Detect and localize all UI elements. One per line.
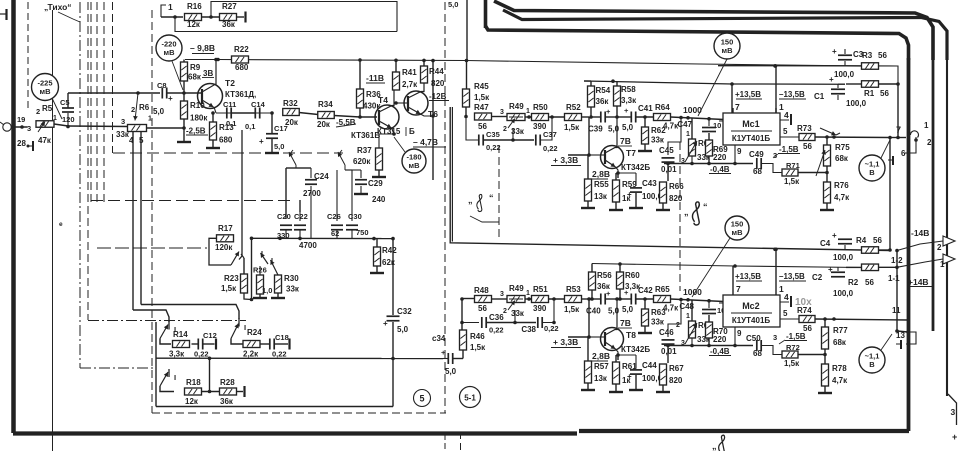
ground under R59 [609,202,623,210]
note mark quote 9 [468,193,499,222]
wire R64 to node [671,116,725,121]
wire R47 to R49 [492,109,508,117]
wire C42 to R65 [636,298,654,300]
wire R46 bottom [462,350,464,359]
resistor R54 [588,86,611,107]
dash-dot screen bottom y368 [80,367,156,369]
ground under C43 [629,193,643,208]
svg-text:R78: R78 [832,364,847,373]
svg-text:+ 3,3В: + 3,3В [553,155,578,165]
wire R45 top [465,0,469,89]
svg-text:С36: С36 [489,313,504,322]
resistor R4 [856,236,882,253]
capacitor C45 [659,118,681,175]
resistor R77 [822,326,849,349]
label -11V [366,73,385,83]
potentiometer R5 [36,115,57,145]
resistor R23 [221,274,248,293]
svg-text:+13,5В: +13,5В [735,90,761,99]
dashed screen x91 [90,2,92,205]
capacitor C39 [588,107,620,134]
svg-text:–13,5В: –13,5В [779,272,805,281]
svg-text:820: 820 [669,376,683,385]
wire box left x156 [155,322,157,407]
svg-text:3: 3 [500,291,504,298]
dashed screen x104 [103,2,105,205]
svg-text:С32: С32 [397,307,412,316]
pin 7 top b [733,284,741,295]
pin 5 out b [780,309,799,319]
svg-text:0,1: 0,1 [226,119,236,128]
svg-text:R28: R28 [220,378,235,387]
svg-text:33к: 33к [286,285,300,294]
end bar after R27 [244,12,246,23]
svg-text:КТ361Д,: КТ361Д, [225,90,256,99]
svg-text:1: 1 [924,121,929,130]
svg-text:+: + [832,231,837,240]
switch S3 [160,369,176,392]
resistor R72 [782,343,800,368]
resistor R57 [585,361,610,383]
supply drop pin7 Mc1 [732,84,762,113]
capacitor C18 [270,333,289,359]
wire rail y81 [584,79,838,85]
pin 4 bar b [780,292,791,307]
wire R32-R34 [299,113,318,115]
svg-text:R66: R66 [669,182,684,191]
wire to C37 [513,139,534,141]
supply drop pin1 Mc1 [774,64,806,113]
svg-text:56: 56 [880,89,889,98]
svg-text:100,0: 100,0 [833,289,854,298]
svg-text:КТ315: КТ315 [377,127,401,136]
svg-text:с34: с34 [432,334,446,343]
wire R59 top [615,173,617,180]
resistor R9 [181,62,215,82]
resistor R18 [185,378,202,406]
resistor R73 [797,124,815,151]
svg-text:С26: С26 [327,212,341,221]
wire R70 top [708,315,710,322]
svg-text:680: 680 [219,136,233,145]
wire R16-R27 [202,15,220,19]
resistor R16 [185,2,203,29]
svg-text:33к: 33к [651,136,665,145]
wire C36 to wiper2 [486,310,517,324]
svg-text:Мс1: Мс1 [742,119,759,129]
svg-text:С2: С2 [812,273,823,282]
svg-text:5,0: 5,0 [397,325,409,334]
dashed screen x499 [498,145,500,238]
capacitor C4 electrolytic [820,231,854,262]
wire R57 top [587,337,589,361]
svg-text:С20: С20 [277,212,291,221]
svg-text:33к: 33к [511,309,525,318]
dashed screen x460 [460,432,462,450]
label 7V b [618,318,632,328]
wire R34 to T4 base [334,115,377,119]
wire R45 bottom [464,107,468,118]
svg-text:-14В: -14В [911,228,929,238]
capacitor C47 [677,119,716,132]
capacitor C24 [303,168,329,238]
ground under R37 [372,170,386,177]
resistor R66 [660,182,685,203]
svg-text:5,0: 5,0 [622,123,634,132]
svg-text:0,22: 0,22 [543,144,558,153]
wire R4 right [879,248,899,252]
wire R6 pin4 down [132,132,134,311]
svg-text:+: + [627,190,632,199]
svg-text:2: 2 [937,243,942,252]
wire C20 branch [286,168,296,219]
wire R48 to R49b [492,291,508,299]
circled 5 [414,390,431,407]
transistor T8 [589,299,624,355]
svg-text:820: 820 [669,194,683,203]
svg-text:20к: 20к [285,118,299,127]
svg-text:R54: R54 [596,86,611,95]
wire R1 leads [846,82,900,86]
svg-text:1-2: 1-2 [891,256,903,265]
wire input to R5 [11,125,28,129]
svg-text:2: 2 [927,138,932,147]
svg-text:5: 5 [419,394,424,404]
wire R63 top [643,297,647,309]
svg-text:750: 750 [356,228,369,237]
svg-text:56: 56 [865,278,874,287]
svg-text:1,5к: 1,5к [474,93,490,102]
svg-text:5,0: 5,0 [622,305,634,314]
svg-text:2700: 2700 [303,189,321,198]
svg-text:2,2к: 2,2к [243,350,259,359]
svg-text:– 9,8В: – 9,8В [190,43,215,53]
resistor R48 [474,286,492,313]
capacitor C26 [327,170,343,239]
svg-text:е: е [59,221,63,228]
svg-text:R56: R56 [597,271,612,280]
svg-text:С45: С45 [659,146,674,155]
wire R65 to node [671,298,725,303]
wire C41 to R64 [636,116,654,118]
screen line x52 [52,10,54,449]
svg-text:4700: 4700 [299,241,317,250]
svg-text:1: 1 [686,313,690,320]
svg-text:С1: С1 [814,92,825,101]
mark e [59,221,63,228]
wire R61 top [615,355,617,362]
resistor R27 [220,2,238,29]
measure circle 150mV bottom [725,216,749,240]
wire row C3 [718,64,845,68]
label 11 [892,306,901,315]
svg-text:+: + [606,107,611,116]
resistor R17 [215,224,234,252]
svg-text:+: + [828,265,833,274]
svg-text:68к: 68к [188,73,202,82]
label 2.8V b [590,351,610,361]
wire base left [568,154,589,156]
wire x890 vertical [889,138,891,251]
switch contact c [260,251,268,275]
ground under R62 [638,144,652,151]
svg-text:3: 3 [500,109,504,116]
svg-text:С29: С29 [368,179,383,188]
svg-text:+: + [624,288,629,297]
svg-text:19: 19 [17,115,25,124]
wire R71 to R75 [798,171,829,175]
svg-text:7: 7 [735,102,740,112]
wire C11-C14 [232,112,256,114]
svg-text:5: 5 [783,309,788,318]
wire R9 top to rail [183,60,185,63]
svg-text:С39: С39 [588,125,603,134]
capacitor C44 electrolytic [627,355,663,383]
svg-text:2,8В: 2,8В [592,169,610,179]
svg-text:1: 1 [686,131,690,138]
resistor R28 [220,378,237,406]
svg-text:68: 68 [753,167,762,176]
svg-text:-1,5В: -1,5В [779,145,799,154]
ground under R55 [581,201,595,208]
svg-text:R37: R37 [357,146,372,155]
wire R69 top [708,133,710,140]
thick frame C vertical right [907,58,911,431]
svg-text:R34: R34 [318,100,333,109]
svg-text:1,5к: 1,5к [784,359,800,368]
svg-text:5: 5 [783,127,788,136]
pin 9 b [735,327,742,346]
wire R54 rail stub [584,80,591,82]
svg-text:R46: R46 [470,332,485,341]
frame B vertical right [946,58,948,396]
svg-text:7В: 7В [620,318,631,328]
svg-text:R58: R58 [621,85,636,94]
resistor R69 [706,140,729,162]
svg-text:2,8В: 2,8В [592,351,610,361]
svg-text:Б: Б [409,127,415,136]
wire row1 [161,15,183,19]
ground under R30 [271,293,285,298]
svg-text:2: 2 [503,126,507,133]
svg-text:56: 56 [803,324,812,333]
svg-text:С22: С22 [294,212,308,221]
dash-dot screen y320 [88,320,246,322]
svg-text:2: 2 [131,105,135,114]
capacitor C30 [345,170,369,239]
resistor R52 [564,103,582,132]
svg-text:R74: R74 [797,306,812,315]
svg-text:3,3к: 3,3к [621,96,637,105]
wire rail y358 [156,357,443,361]
note mark clef bottom [712,435,725,451]
label 2.8V [590,169,610,179]
svg-text:11: 11 [892,306,901,315]
svg-text:R65: R65 [655,285,670,294]
svg-text:1: 1 [526,290,530,297]
svg-text:R60: R60 [625,271,640,280]
wire R3 leads [845,66,898,84]
wire feedback row b [688,338,753,347]
wire R77 leads [824,319,826,355]
svg-text:13к: 13к [594,192,608,201]
svg-text:36к: 36к [222,20,236,29]
svg-text:+: + [829,75,834,84]
capacitor C20 [277,212,292,240]
dashed screen x680 [679,142,681,291]
svg-text:В: В [869,168,875,177]
svg-text:R55: R55 [594,180,609,189]
svg-text:С38: С38 [521,325,536,334]
supply drop pin7 Mc2 [733,266,762,290]
measure circle -225mV [32,74,63,120]
svg-text:С50: С50 [746,334,761,343]
thick bottom frame line right segment [579,429,909,433]
leader to 150mV circle [698,59,727,116]
svg-text:С41: С41 [638,104,653,113]
svg-text:R24: R24 [247,328,262,337]
svg-text:С43: С43 [642,179,657,188]
long-dash screen y248 [97,247,207,249]
transistor T7 [589,117,624,173]
svg-text:R42: R42 [382,246,397,255]
svg-text:Т4: Т4 [378,95,388,105]
svg-text:С11: С11 [223,100,236,109]
svg-text:R72: R72 [786,343,800,352]
svg-text:+ 3,3В: + 3,3В [553,337,578,347]
end bar R28 [243,386,245,397]
svg-text:“: “ [489,193,494,203]
svg-text:0,1: 0,1 [245,122,255,131]
svg-text:„Тихо“: „Тихо“ [44,2,72,12]
svg-text:R53: R53 [566,285,581,294]
svg-text:+: + [624,106,629,115]
svg-text:1,5к: 1,5к [564,123,580,132]
svg-text:С44: С44 [642,361,657,370]
label -12V [429,92,449,101]
capacitor C12 [192,331,217,359]
svg-text:R64: R64 [655,103,670,112]
resistor R44 [421,66,445,88]
wire R10 top [183,93,185,101]
dashed screen y153 mid [113,152,343,154]
pin 3 label b [773,333,777,342]
svg-text:3,3к: 3,3к [169,350,185,359]
svg-text:47к: 47к [38,136,52,145]
wire R36 top [359,60,361,89]
wire rail A feed [450,107,890,251]
wire R51-R53 [549,297,566,301]
leader 150mV bottom [692,238,730,297]
thick frame C vertical left (top) [484,0,488,28]
resistor R32 [283,99,300,127]
resistor R1 [862,81,890,98]
edge tick mark top-left [0,9,7,20]
wire C50 right [761,346,782,355]
wire C49 right [761,164,782,173]
svg-text:С42: С42 [638,286,653,295]
svg-text:К1УТ401Б: К1УТ401Б [732,316,771,325]
svg-text:R48: R48 [474,286,489,295]
svg-text:R5: R5 [42,104,53,113]
arrow out ch1 [897,254,955,269]
pin 7 top [733,102,740,113]
dashed screen x97 [96,2,98,205]
resistor R45 [463,82,491,107]
label Tiho [44,2,80,22]
R17 bypass loop [209,238,231,265]
wire R24 to C18 [260,343,270,345]
svg-text:„: „ [468,195,473,205]
measure circle -180mV [394,137,426,173]
resistor R14 [169,330,190,359]
svg-text:2,7к: 2,7к [402,80,418,89]
wire R50-R52 [549,115,566,119]
svg-text:R22: R22 [234,45,249,54]
svg-text:1: 1 [148,116,152,123]
svg-text:7В: 7В [620,136,631,146]
wire C45 row join [664,162,688,166]
svg-text:“: “ [703,202,708,212]
svg-text:R32: R32 [283,99,298,108]
wire C35 to wiper [483,128,515,142]
dashed box 5 bottom y413 [152,412,446,414]
dashed screen x152 big box 5 left [151,10,153,413]
wire emitter node b [616,353,636,360]
capacitor C14 [245,100,266,131]
svg-text:В: В [869,360,875,369]
svg-text:КТ361Б: КТ361Б [351,131,380,140]
resistor R10 [181,101,209,136]
wire rail B [592,262,860,268]
resistor R3 [862,51,888,69]
svg-text:0,22: 0,22 [489,326,504,335]
pin 3 label [773,151,777,160]
svg-text:+14В: +14В [908,277,929,287]
ground under R26 [253,294,267,298]
dashed screen line x28 [27,2,29,112]
svg-text:R41: R41 [402,68,417,77]
svg-text:R67: R67 [669,364,684,373]
svg-text:+: + [383,319,388,328]
wire box bottom y406 [156,406,393,408]
label -1.5V b [779,332,807,344]
wire R18-R28 [202,391,220,393]
wire C36 row [462,322,479,324]
label 1000 top [683,105,702,115]
transistor T6 [394,83,433,116]
svg-text:3: 3 [27,124,31,133]
svg-text:1,5к: 1,5к [564,305,580,314]
svg-text:R73: R73 [797,124,812,133]
svg-text:R14: R14 [173,330,188,339]
svg-text:мВ: мВ [409,161,421,170]
transistor T4 [375,90,399,134]
svg-text:R17: R17 [218,224,233,233]
resistor R42 [374,246,398,267]
wire x897 down to row11 [896,267,898,331]
wire R28 end [237,391,244,393]
svg-text:180к: 180к [190,114,208,123]
svg-text:С30: С30 [348,212,362,221]
ground under R10 [177,128,191,142]
ground under C17 [265,139,279,153]
svg-text:9: 9 [737,329,742,338]
wire R10 bottom to node [182,119,186,130]
label T4 [378,95,388,105]
resistor R37 [353,146,383,170]
wire R56 top [591,264,593,273]
